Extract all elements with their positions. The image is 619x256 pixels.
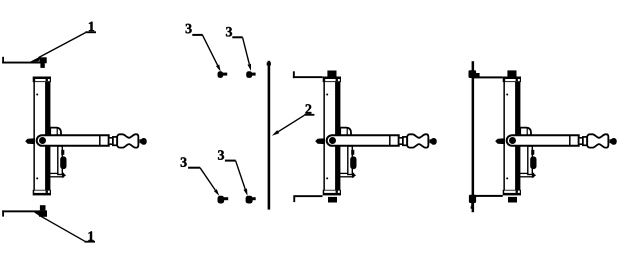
fig1 bracket 1 top plate bbox=[2, 62, 44, 64]
fig2 knob on hanger bbox=[350, 156, 356, 169]
fig1 hanger member below arm bbox=[58, 146, 63, 175]
fig2 bracket 1 bottom clamp block bbox=[328, 197, 337, 203]
fig1 bracket 1 top clamp block bbox=[39, 57, 46, 63]
label 1 (bottom) bbox=[88, 231, 93, 240]
fig1 mounting shelf (lower) bbox=[48, 173, 63, 176]
fig2 column left wall bbox=[323, 81, 325, 191]
fig2 grip handle bbox=[407, 134, 428, 147]
screw 3 bottom-left bbox=[218, 196, 229, 204]
fig3 screw hole lower bbox=[506, 177, 508, 179]
fig2 shelf end tip bbox=[352, 172, 356, 178]
fig1 shelf end tip bbox=[62, 172, 66, 178]
fig2 screw hole lower bbox=[326, 177, 328, 179]
fig3 clamp screw tip (left) bbox=[495, 138, 505, 144]
fig1 grip handle bbox=[117, 134, 138, 147]
fig3 hanger stub bbox=[531, 150, 534, 155]
fig2 hanger stub bbox=[351, 150, 354, 155]
fig3 arm bar bbox=[507, 135, 579, 146]
fig3 bracket 1 top plate bbox=[474, 76, 503, 78]
fig1 bracket 1 bottom plate bbox=[2, 210, 44, 212]
fig3 pivot bolt bbox=[509, 137, 516, 144]
fig2 column right wall bbox=[335, 81, 340, 191]
label 3 (top-left) bbox=[186, 24, 192, 33]
fig2 column top cap bbox=[323, 77, 341, 83]
fig2 screw hole upper bbox=[326, 94, 328, 96]
label 3 (bottom-left) bbox=[181, 157, 187, 166]
fig1 hanger stub bbox=[61, 150, 64, 155]
fig2 mounting shelf (lower) bbox=[338, 173, 353, 176]
fig1 arm neck bbox=[109, 138, 113, 144]
fig2 bracket 1 bottom plate bbox=[293, 195, 322, 197]
fig1 bracket 1 top end lug bbox=[2, 57, 4, 64]
label 1 (top) bbox=[89, 22, 94, 31]
fig1 arm collar bbox=[113, 137, 117, 145]
fig1 pivot bolt bbox=[39, 137, 46, 144]
fig3 knob on hanger bbox=[530, 156, 536, 169]
leader line to label 3 (top-left) bbox=[192, 34, 220, 72]
fig3 hanger member below arm bbox=[528, 146, 533, 175]
fig1 column left wall bbox=[33, 81, 35, 191]
leader line to label 2 bbox=[272, 114, 315, 136]
fig1 column bottom cap bbox=[33, 190, 51, 196]
fig1 handle end tip bbox=[140, 138, 147, 145]
fig1 bracket 1 bottom clamp block bbox=[39, 210, 47, 216]
fig1 bracket 1 bottom clamp stub bbox=[40, 205, 46, 210]
fig3 column top cap bbox=[503, 77, 521, 83]
fig3 grip handle bbox=[587, 134, 608, 147]
fig3 step block above arm bbox=[520, 128, 531, 135]
fig2 bracket 1 top end lug bbox=[293, 71, 295, 78]
fig1 knob on hanger bbox=[60, 156, 66, 169]
fig1 bracket 1 bottom end lug bbox=[2, 210, 4, 216]
fig2 clamp screw tip (left) bbox=[315, 138, 325, 144]
label 3 (bottom-right) bbox=[218, 150, 224, 159]
fig3 arm collar bbox=[583, 137, 587, 145]
fig3 pole 2 bbox=[472, 61, 475, 212]
fig3 screw hole upper bbox=[506, 94, 508, 96]
fig1 arm bar bbox=[37, 135, 109, 146]
fig1 clamp screw tip (left) bbox=[25, 138, 35, 144]
fig3 handle end tip bbox=[610, 138, 617, 145]
fig2 column bottom cap bbox=[323, 190, 341, 196]
fig1 screw hole upper bbox=[36, 94, 38, 96]
fig3 shelf end tip bbox=[532, 172, 536, 178]
fig3 arm neck bbox=[579, 138, 583, 144]
fig3 top pole clamp bbox=[469, 70, 480, 78]
fig3 mounting shelf (lower) bbox=[518, 173, 533, 176]
leader line to label 3 (top-right) bbox=[232, 36, 251, 71]
fig2 bracket 1 bottom end lug bbox=[293, 197, 295, 202]
pole 2 (free) bbox=[267, 61, 271, 210]
fig2 hanger member below arm bbox=[348, 146, 353, 175]
fig1 bracket 1 top clamp stub bbox=[40, 63, 44, 68]
screw 3 top-right bbox=[246, 71, 255, 78]
fig2 arm neck bbox=[399, 138, 403, 144]
fig1 arm divider line bbox=[99, 135, 101, 146]
screw 3 top-left bbox=[218, 71, 228, 78]
fig1 step block above arm bbox=[50, 128, 61, 135]
fig2 arm collar bbox=[403, 137, 407, 145]
fig3 bracket 1 top clamp block bbox=[507, 70, 516, 77]
leader line to label 1 (bottom) bbox=[33, 211, 95, 242]
fig3 bottom pole clamp bbox=[469, 195, 476, 209]
leader line to label 3 (bottom-left) bbox=[188, 167, 219, 196]
fig2 bracket 1 top clamp block bbox=[327, 71, 336, 78]
fig2 bracket 1 top plate bbox=[293, 76, 323, 78]
fig3 column bottom cap bbox=[503, 190, 521, 196]
fig2 handle end tip bbox=[430, 138, 437, 145]
leader line to label 3 (bottom-right) bbox=[225, 160, 248, 196]
fig3 column left wall bbox=[503, 81, 505, 191]
leader line to label 1 (top) bbox=[30, 31, 97, 62]
fig2 pivot bolt bbox=[329, 137, 336, 144]
fig3 bracket 1 bottom clamp block bbox=[508, 197, 517, 203]
label 2 bbox=[305, 104, 311, 113]
fig2 step block above arm bbox=[340, 128, 351, 135]
label 3 (top-right) bbox=[226, 27, 232, 36]
screw 3 bottom-right bbox=[246, 196, 256, 204]
fig2 arm divider line bbox=[389, 135, 391, 146]
fig1 column top cap bbox=[33, 77, 51, 83]
fig3 bracket 1 bottom plate bbox=[474, 195, 503, 197]
fig1 screw hole lower bbox=[36, 177, 38, 179]
fig2 arm bar bbox=[327, 135, 399, 146]
fig3 arm divider line bbox=[569, 135, 571, 146]
fig1 column right wall bbox=[45, 81, 50, 191]
fig3 column right wall bbox=[515, 81, 520, 191]
